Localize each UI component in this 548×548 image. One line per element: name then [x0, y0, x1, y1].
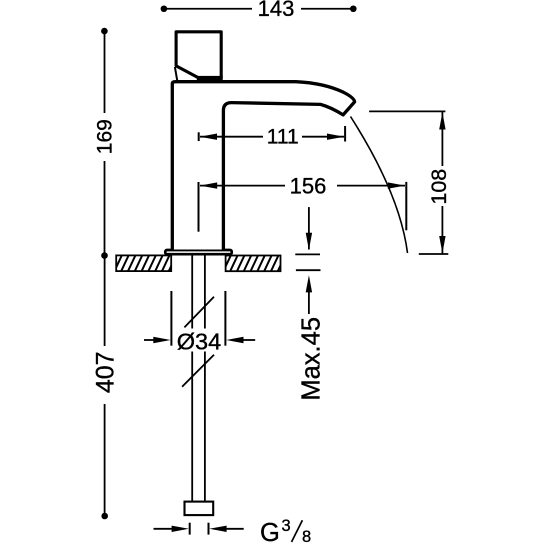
countertop cross-section left (hatched) — [114, 255, 176, 272]
dimension G 3/8 (thread size) — [154, 517, 312, 547]
end dot right — [350, 5, 357, 12]
dimension 143 (overall width, top) — [161, 0, 357, 21]
supply pipe shank — [192, 255, 205, 500]
shared dot middle — [101, 252, 108, 259]
svg-text:G: G — [260, 519, 280, 547]
arrowhead left (points right) — [172, 526, 189, 532]
arrowhead left (points right) — [153, 337, 170, 343]
value 143 — [252, 0, 301, 18]
G3/8 connector nut — [185, 502, 214, 515]
value Ø34 — [176, 329, 223, 352]
pipe break mark upper — [184, 297, 214, 328]
arrowhead up — [439, 112, 445, 129]
value 407 — [92, 346, 115, 404]
leader line right — [226, 528, 244, 530]
arrowhead right — [327, 134, 344, 140]
value 156 — [285, 177, 337, 195]
dim line 169 — [104, 31, 106, 256]
arrowhead up (to deck bottom) — [306, 275, 312, 292]
leader line right — [243, 339, 255, 341]
dim line 143 — [164, 8, 353, 10]
dimension 169 (height above deck, left) — [94, 28, 117, 256]
dimension Ø34 (shank diameter) — [144, 291, 255, 355]
arrowhead right (points left) — [209, 526, 226, 532]
arrowhead right (points left) — [226, 337, 243, 343]
extension line at faucet axis — [198, 182, 200, 232]
leader line left — [144, 339, 154, 341]
extension tick at faucet axis — [198, 132, 200, 141]
extension tick right — [208, 523, 210, 535]
svg-text:3: 3 — [282, 517, 291, 535]
arrowhead left — [200, 134, 217, 140]
faucet body and waterfall spout outline — [172, 82, 354, 250]
extension tick deck bottom — [296, 269, 321, 271]
end dot top — [101, 28, 108, 35]
extension line top (outlet level) — [369, 110, 445, 112]
base flange — [165, 250, 231, 254]
handle lever — [176, 32, 221, 78]
svg-text:169: 169 — [94, 119, 117, 154]
water stream curve — [351, 117, 408, 254]
svg-text:407: 407 — [92, 351, 120, 393]
dim line 407 — [104, 256, 106, 516]
svg-text:156: 156 — [290, 174, 327, 199]
arrowhead down (to deck top) — [306, 233, 312, 250]
leader line left — [154, 528, 173, 530]
svg-text:Ø34: Ø34 — [177, 329, 221, 355]
extension line right — [224, 291, 226, 346]
extension line at stream — [405, 182, 407, 230]
extension tick left — [189, 523, 191, 535]
handle base black bar — [197, 76, 223, 81]
svg-text:Max.45: Max.45 — [297, 317, 325, 401]
arrowhead left — [200, 182, 217, 188]
dim line 156 — [200, 185, 405, 187]
value 108 — [430, 166, 449, 206]
arrowhead down — [439, 236, 445, 253]
value 169 — [94, 113, 113, 161]
svg-text:108: 108 — [427, 169, 451, 205]
end dot bottom — [101, 513, 108, 520]
end dot left — [161, 5, 168, 12]
svg-text:8: 8 — [302, 528, 311, 546]
dimension 111 (spout reach) — [199, 126, 345, 149]
dimension 407 (length below deck, left) — [92, 252, 120, 519]
arrowhead right — [388, 182, 405, 188]
dim line 108 — [441, 112, 443, 254]
countertop cross-section right (hatched) — [223, 255, 285, 272]
value 111 — [263, 128, 302, 146]
dimension 156 (reach to stream end) — [199, 174, 407, 232]
extension tick at outlet — [344, 126, 346, 142]
dim line 111 — [200, 136, 344, 138]
svg-text:111: 111 — [267, 126, 299, 149]
handle hinge sliver — [175, 67, 177, 81]
dimension 108 (outlet height, right) — [369, 111, 451, 254]
dimension Max.45 (max deck thickness) — [295, 207, 325, 401]
leader line from above — [308, 207, 310, 249]
svg-text:143: 143 — [258, 0, 295, 21]
extension line left — [170, 291, 172, 346]
leader line from below — [308, 291, 310, 314]
pipe break mark lower — [182, 355, 214, 387]
extension tick deck top — [295, 253, 320, 255]
extension line bottom (deck level) — [419, 253, 449, 255]
